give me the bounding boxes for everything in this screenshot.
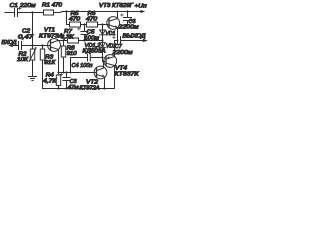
svg-text:470: 470 xyxy=(69,16,80,22)
node C6 tap xyxy=(126,10,128,12)
node VT2 collector join xyxy=(102,60,104,62)
node R4 tap xyxy=(57,71,59,73)
wire VD1 to mid node xyxy=(102,35,104,41)
wire branch down to R5 row xyxy=(67,12,70,25)
ground rail xyxy=(43,88,115,90)
wire VT1 collector down xyxy=(58,49,60,72)
node C5 bottom xyxy=(83,39,85,41)
svg-text:R1 470: R1 470 xyxy=(42,3,63,9)
node C5 tap xyxy=(83,23,85,25)
wire VT3 emitter down xyxy=(117,28,119,41)
svg-text:ВХОД: ВХОД xyxy=(2,40,17,46)
ground xyxy=(29,77,37,81)
node VT2 rail xyxy=(103,87,105,89)
transistor VT4 xyxy=(104,55,117,68)
node R3 tap xyxy=(41,44,43,46)
input terminal arrow xyxy=(12,45,17,47)
wire R8 down to VT2 base line xyxy=(63,57,65,73)
node R2 tap xyxy=(31,44,33,46)
wire VT3 collector to rail xyxy=(117,12,119,19)
wire R4 to rail xyxy=(58,86,60,89)
svg-text:47м: 47м xyxy=(68,85,79,91)
node R5 branch xyxy=(65,10,67,12)
capacitor C5 xyxy=(81,25,88,41)
capacitor C2 xyxy=(19,42,51,50)
node VD mid xyxy=(101,39,103,41)
wire R7 to VD mid xyxy=(79,40,103,42)
wire R3 to rail xyxy=(42,60,44,89)
node C3 rail xyxy=(65,87,67,89)
wire bias vertical xyxy=(32,13,34,46)
capacitor C7 xyxy=(118,37,144,45)
wire VT2 emitter down xyxy=(104,77,106,89)
svg-text:+Uп: +Uп xyxy=(135,3,147,9)
wire VT2 base line xyxy=(59,72,97,74)
svg-text:C1 220м: C1 220м xyxy=(10,3,36,9)
capacitor C4 xyxy=(71,54,103,73)
svg-text:4,7К: 4,7К xyxy=(43,79,57,85)
resistor R1 xyxy=(44,10,54,15)
wire VT2 collector up xyxy=(103,62,105,69)
wire R5-R6 xyxy=(81,24,87,26)
resistor R7 xyxy=(68,38,79,43)
node R4 rail xyxy=(57,87,59,89)
svg-text:3,3К: 3,3К xyxy=(61,35,75,41)
diode VD2 xyxy=(102,41,104,48)
resistor R5 xyxy=(70,22,81,27)
svg-text:КТ837К: КТ837К xyxy=(115,72,140,78)
node bias tap xyxy=(31,11,33,13)
wire R2 to ground xyxy=(32,60,34,77)
node R8 tap xyxy=(62,39,64,41)
top supply rail left xyxy=(5,12,44,14)
wire VT4 emitter up xyxy=(114,41,116,57)
resistor R2 trimmer xyxy=(32,46,34,50)
output node segment xyxy=(115,40,118,42)
wire VT1 emitter line xyxy=(58,40,68,42)
top supply rail right xyxy=(54,12,141,13)
resistor R6 xyxy=(87,22,98,27)
node C3 tap xyxy=(65,71,67,73)
svg-text:VT3 КТ829Г: VT3 КТ829Г xyxy=(99,3,134,9)
transistor VT1 xyxy=(48,39,61,52)
svg-text:C4 100п: C4 100п xyxy=(72,63,93,69)
resistor R3 xyxy=(42,46,44,50)
capacitor C6 xyxy=(124,12,132,25)
resistor R8 xyxy=(63,41,65,47)
wire VD2 to VT4 base xyxy=(103,47,107,61)
wire VT4 collector down xyxy=(114,66,116,89)
node VD1 tap xyxy=(101,23,103,25)
svg-text:91К: 91К xyxy=(44,60,56,66)
transistor VT3 xyxy=(107,17,120,30)
diode VD1 xyxy=(102,25,104,41)
output arrow xyxy=(143,39,148,42)
svg-text:2200м: 2200м xyxy=(117,25,139,31)
node C4 join xyxy=(101,56,103,58)
transistor VT2 xyxy=(94,66,107,79)
capacitor C1 xyxy=(15,9,18,17)
svg-text:470: 470 xyxy=(86,16,97,22)
svg-text:10К: 10К xyxy=(17,57,29,63)
svg-text:2200м: 2200м xyxy=(111,50,133,56)
svg-text:ВЫХОД: ВЫХОД xyxy=(123,34,146,40)
svg-text:910: 910 xyxy=(67,51,77,57)
resistor R4 xyxy=(58,73,60,76)
svg-text:0,47: 0,47 xyxy=(18,35,34,41)
wire R6 to VT3 base xyxy=(98,24,110,26)
capacitor C3 xyxy=(63,73,70,89)
